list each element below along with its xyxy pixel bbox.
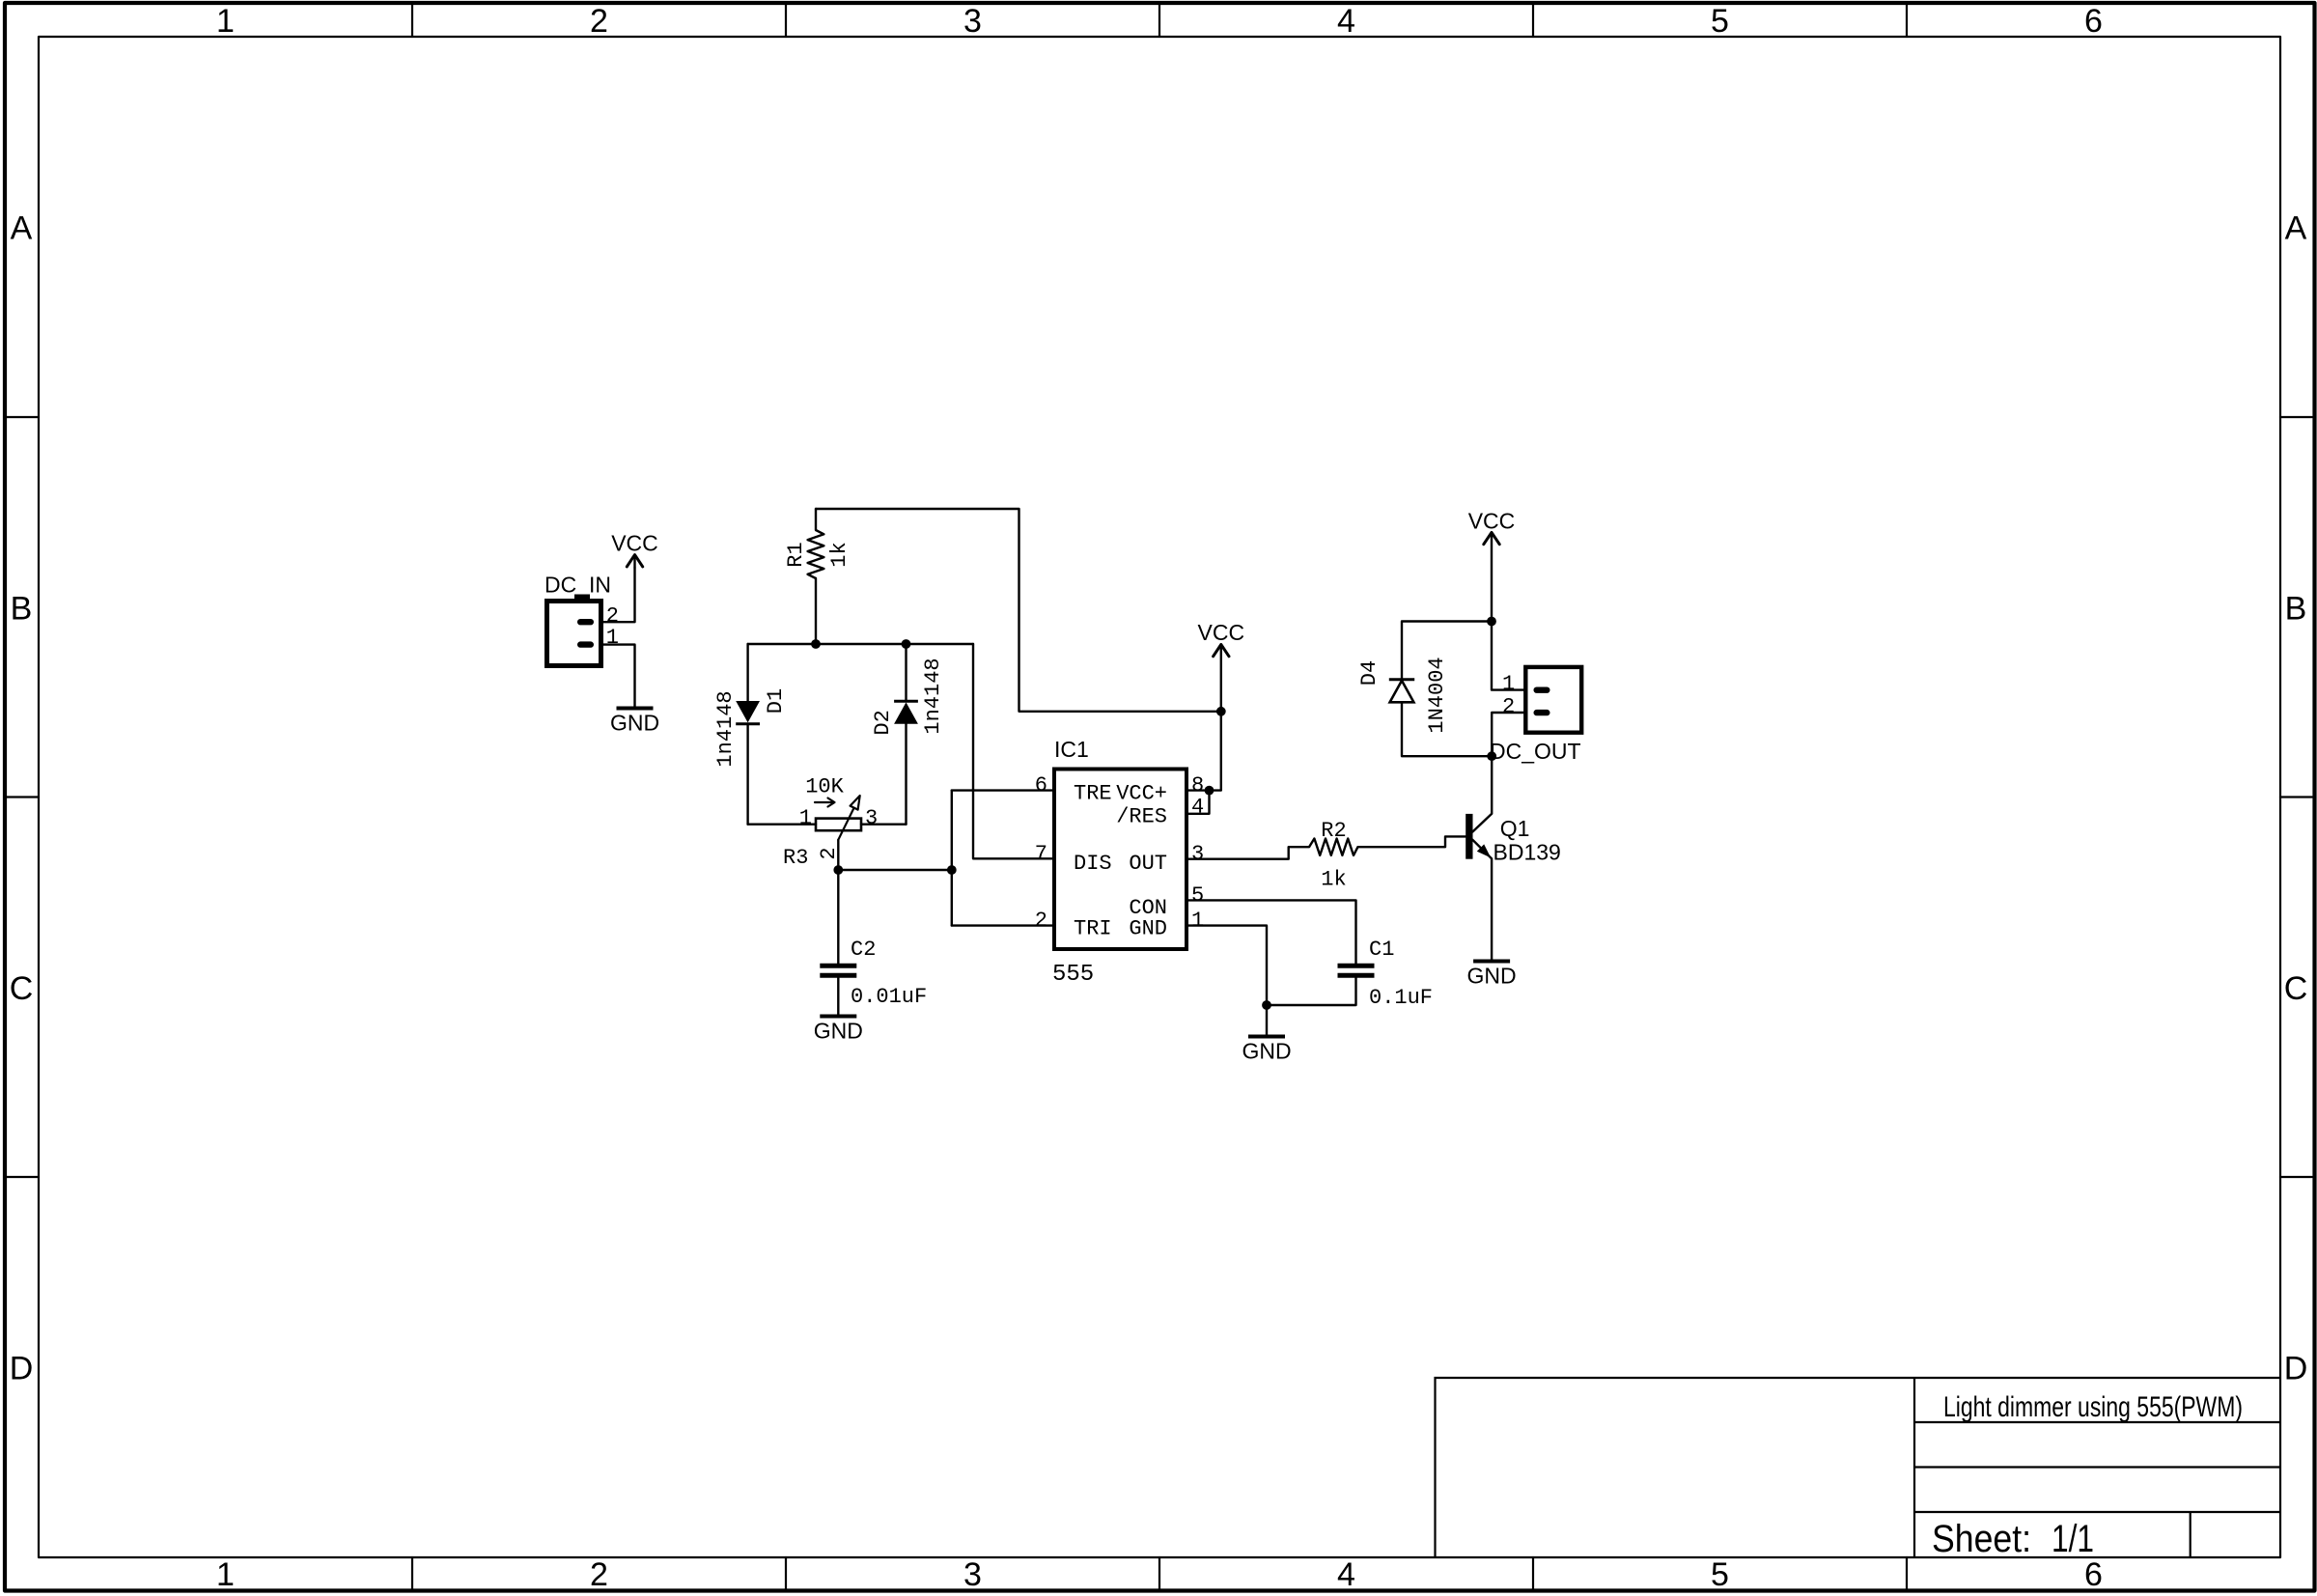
svg-text:D4: D4 [1357,660,1382,686]
svg-text:DC_IN: DC_IN [544,573,611,598]
svg-text:10K: 10K [805,775,844,799]
svg-text:0.1uF: 0.1uF [1369,986,1433,1010]
svg-text:VCC: VCC [1198,620,1245,645]
svg-text:C: C [2284,970,2308,1007]
svg-text:3: 3 [865,806,878,830]
svg-text:2: 2 [1035,909,1047,933]
svg-text:3: 3 [963,1556,982,1593]
svg-text:4: 4 [1191,796,1204,820]
svg-text:DC_OUT: DC_OUT [1490,739,1581,764]
svg-text:Q1: Q1 [1500,816,1530,841]
svg-text:B: B [2285,590,2307,627]
svg-text:7: 7 [1035,842,1047,866]
svg-text:5: 5 [1711,1556,1729,1593]
svg-text:C2: C2 [851,938,876,962]
svg-text:4: 4 [1337,1556,1355,1593]
svg-text:0.01uF: 0.01uF [851,985,927,1009]
svg-text:D: D [2284,1350,2308,1386]
svg-text:B: B [11,590,33,627]
svg-text:2: 2 [1502,695,1515,719]
svg-text:1n4148: 1n4148 [921,658,945,734]
svg-text:OUT: OUT [1129,852,1167,876]
svg-text:VCC+: VCC+ [1116,782,1167,806]
svg-text:D: D [10,1350,34,1386]
svg-text:2: 2 [590,3,608,40]
svg-text:GND: GND [610,711,659,736]
svg-text:6: 6 [2084,1556,2103,1593]
svg-text:C1: C1 [1369,938,1394,962]
svg-text:1: 1 [1191,909,1204,933]
svg-text:D1: D1 [764,688,788,714]
svg-text:R2: R2 [1321,819,1346,843]
svg-text:VCC: VCC [1468,508,1516,533]
svg-text:GND: GND [1467,964,1517,989]
svg-text:GND: GND [1242,1039,1291,1064]
svg-text:555: 555 [1052,962,1094,988]
svg-text:2: 2 [817,847,841,859]
svg-text:R1: R1 [784,542,808,567]
svg-text:1: 1 [216,1556,235,1593]
svg-text:1: 1 [1502,672,1515,696]
svg-text:6: 6 [2084,3,2103,40]
svg-text:D2: D2 [871,710,895,735]
svg-text:5: 5 [1711,3,1729,40]
svg-text:TRE: TRE [1074,782,1112,806]
svg-text:A: A [2285,210,2307,246]
svg-text:6: 6 [1035,773,1047,798]
svg-text:BD139: BD139 [1493,840,1561,865]
svg-text:1N4004: 1N4004 [1425,657,1449,733]
svg-text:/RES: /RES [1116,805,1167,829]
svg-text:GND: GND [814,1019,863,1044]
svg-text:GND: GND [1129,916,1167,940]
svg-text:1k: 1k [827,542,851,567]
svg-text:1: 1 [216,3,235,40]
svg-text:Light dimmer using 555(PWM): Light dimmer using 555(PWM) [1943,1391,2243,1423]
svg-text:4: 4 [1337,3,1355,40]
svg-text:R3: R3 [783,846,808,870]
svg-text:C: C [10,970,34,1007]
svg-text:2: 2 [606,604,619,629]
svg-text:VCC: VCC [611,531,658,556]
svg-text:1k: 1k [1321,868,1346,892]
svg-text:5: 5 [1191,883,1204,908]
svg-text:3: 3 [1191,842,1204,866]
svg-text:1n4148: 1n4148 [713,690,738,767]
svg-text:1: 1 [606,626,619,650]
svg-text:DIS: DIS [1074,852,1112,876]
svg-text:1: 1 [799,806,812,830]
svg-text:TRI: TRI [1074,916,1112,940]
svg-text:A: A [11,210,33,246]
svg-text:Sheet:: Sheet: [1932,1518,2031,1560]
svg-text:8: 8 [1191,773,1204,798]
svg-text:1/1: 1/1 [2052,1518,2094,1560]
svg-text:2: 2 [590,1556,608,1593]
svg-text:IC1: IC1 [1054,737,1089,762]
svg-text:3: 3 [963,3,982,40]
